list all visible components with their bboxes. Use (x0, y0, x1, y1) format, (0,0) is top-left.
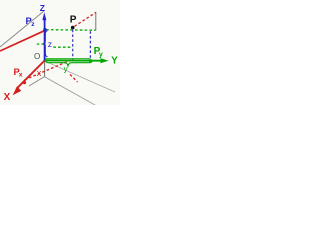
Y axis arrowhead (100, 58, 108, 63)
P dot (71, 26, 75, 30)
svg-text:x: x (37, 68, 42, 78)
negative Z axis grey (44, 61, 46, 77)
Y axis (45, 59, 101, 61)
wall top edge grey diagonal (0, 11, 44, 47)
red dashed Px to P' (25, 59, 73, 80)
red line to Pz (0, 30, 46, 51)
red dashed P to B corner (75, 13, 96, 27)
floor edge upper grey (45, 61, 115, 92)
green dashed wall line left of axis (37, 43, 44, 45)
blue brace for z (43, 31, 47, 57)
green thin box bottom edge (45, 58, 91, 60)
floor edge lower grey (45, 77, 95, 105)
svg-text:y: y (99, 51, 103, 58)
blue dashed B to Py vertical (89, 31, 91, 60)
green dashed mid (z level to P) (53, 46, 71, 48)
svg-text:z: z (48, 39, 52, 49)
green dashed box top edge (46, 29, 95, 32)
svg-text:x: x (19, 72, 23, 79)
Pz dot (43, 28, 46, 31)
svg-text:X: X (4, 92, 11, 103)
background (0, 0, 120, 105)
svg-text:Z: Z (40, 3, 45, 13)
blue dashed P down vertical (72, 30, 74, 63)
fan left grey (29, 77, 45, 87)
svg-text:Y: Y (111, 56, 118, 67)
Py dot (89, 59, 92, 62)
svg-text:O: O (34, 52, 40, 61)
svg-text:z: z (31, 21, 35, 28)
green brace for y (45, 60, 92, 66)
Z axis arrowhead (42, 12, 46, 20)
red dashed short bottom right (70, 75, 78, 83)
X axis arrowhead (13, 86, 22, 95)
svg-text:y: y (64, 65, 68, 74)
back right grey vertical edge (95, 12, 97, 31)
X axis (16, 61, 44, 89)
Z axis (44, 20, 46, 61)
svg-text:P: P (70, 15, 77, 26)
Px dot (23, 81, 26, 84)
